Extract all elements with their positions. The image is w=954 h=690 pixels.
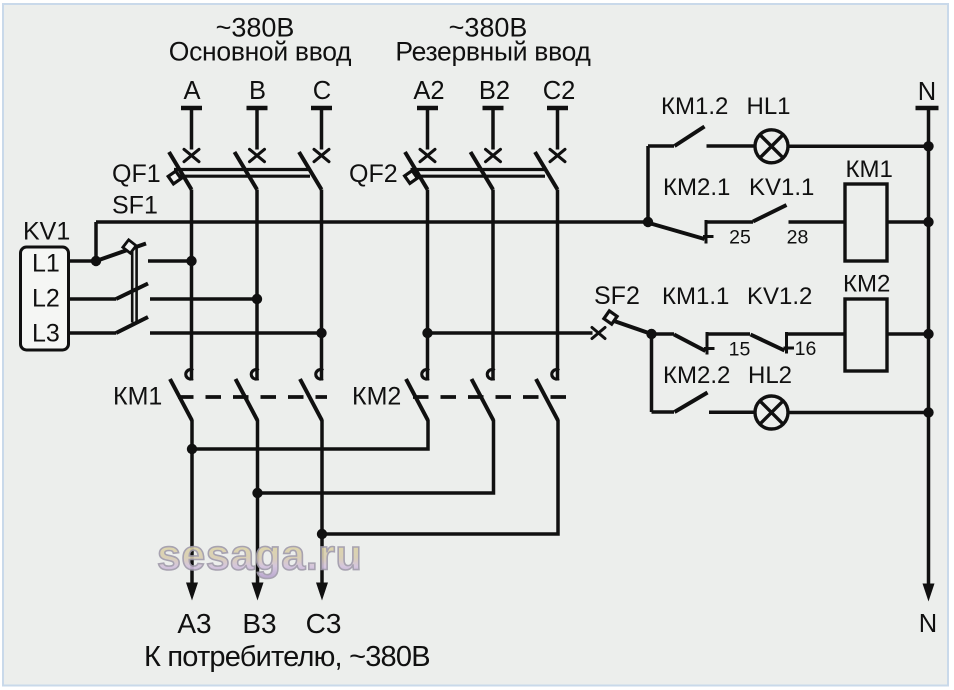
wire SF1 pole 3 to phase C bbox=[150, 331, 322, 335]
wire input A drop bbox=[190, 110, 194, 150]
wire SF1 pole 2 to phase B bbox=[150, 297, 257, 301]
svg-text:А2: А2 bbox=[413, 77, 444, 105]
wire KM1 coil to N bbox=[887, 220, 929, 224]
contact KM1.2 blade (NO) bbox=[675, 127, 705, 147]
svg-text:QF2: QF2 bbox=[349, 160, 398, 188]
wire output phase C down bbox=[320, 420, 324, 584]
switch SF2 blade bbox=[604, 318, 650, 334]
svg-text:Основной ввод: Основной ввод bbox=[169, 37, 352, 67]
wire KV1.2 to KM2 coil bbox=[787, 332, 846, 336]
node phase C tap bbox=[316, 328, 326, 338]
contactor KM1 mechanical link (dashed) bbox=[178, 395, 327, 399]
wire neutral N vertical bbox=[927, 110, 931, 584]
svg-text:КМ2.1: КМ2.1 bbox=[663, 174, 730, 201]
contactor KM1 pole A fixed hook bbox=[186, 370, 193, 379]
contactor KM1 pole B fixed hook bbox=[251, 370, 258, 379]
svg-text:КМ2: КМ2 bbox=[352, 383, 401, 411]
lamp HL1 bbox=[755, 130, 788, 163]
contactor KM2 pole C2 blade bbox=[536, 379, 558, 421]
node N/HL2 bbox=[923, 407, 933, 417]
svg-text:КМ1: КМ1 bbox=[113, 383, 162, 411]
svg-text:KV1.1: KV1.1 bbox=[749, 174, 814, 201]
svg-text:QF1: QF1 bbox=[112, 160, 161, 188]
breaker QF1 pole A blade bbox=[169, 152, 192, 190]
contact KM2.1 blade (NC) bbox=[649, 223, 705, 239]
contact KM2.2 blade (NO) bbox=[675, 393, 708, 413]
breaker QF2 pole B2 blade bbox=[471, 152, 494, 190]
breaker QF2 pole A2 fixed contact x bbox=[420, 149, 435, 161]
wire KV1 L1 to node bbox=[69, 259, 97, 263]
node phase A2 tap bbox=[422, 328, 432, 338]
wire KM2 coil to N bbox=[887, 332, 929, 336]
contactor KM2 pole B2 fixed hook bbox=[487, 370, 494, 379]
contact KV1.2 blade (NC) bbox=[751, 335, 785, 351]
svg-text:SF1: SF1 bbox=[112, 192, 158, 220]
svg-text:28: 28 bbox=[787, 227, 809, 249]
wire phase B2 (QF2 out) down to KM2 pole B2 bbox=[491, 190, 495, 381]
wire KM2.2 stub bbox=[652, 410, 675, 414]
breaker QF1 pole C blade bbox=[299, 152, 322, 190]
contactor KM2 mechanical link (dashed) bbox=[413, 395, 574, 399]
wire KM2 pole C2 out to phase C bbox=[325, 420, 559, 534]
breaker QF1 pole B fixed contact x bbox=[250, 149, 265, 161]
wire KM1.1 to KV1.2 bbox=[707, 332, 750, 336]
svg-text:L3: L3 bbox=[32, 320, 60, 348]
svg-text:КМ2: КМ2 bbox=[843, 271, 890, 298]
svg-text:Резервный ввод: Резервный ввод bbox=[395, 37, 591, 67]
contactor KM1 pole C fixed hook bbox=[316, 370, 323, 379]
svg-text:В3: В3 bbox=[242, 608, 276, 639]
wire KV1 L3 stub bbox=[69, 331, 117, 335]
contactor KM2 pole C2 fixed hook bbox=[552, 370, 559, 379]
switch SF1 flag bbox=[123, 240, 136, 253]
breaker QF2 pole C2 blade bbox=[535, 152, 558, 190]
arrow output A3 bbox=[186, 583, 198, 601]
switch SF2 fixed contact x bbox=[592, 328, 605, 339]
wire KM2 pole B2 out to phase B bbox=[260, 420, 494, 493]
node L1/SF1 junction bbox=[91, 256, 101, 266]
svg-text:L1: L1 bbox=[32, 250, 60, 278]
wire input A2 drop bbox=[426, 110, 430, 150]
svg-text:KV1: KV1 bbox=[23, 218, 70, 246]
breaker QF1 pole A fixed contact x bbox=[184, 149, 199, 161]
breaker QF2 pole C2 fixed contact x bbox=[550, 149, 565, 161]
lamp HL2 bbox=[755, 396, 788, 429]
switch SF1 pole 3 blade bbox=[116, 317, 148, 333]
breaker QF1 flag bbox=[168, 171, 181, 184]
wire KV1 L2 stub bbox=[69, 297, 117, 301]
svg-text:КМ1: КМ1 bbox=[846, 156, 893, 183]
svg-text:К потребителю, ~380В: К потребителю, ~380В bbox=[144, 641, 430, 673]
breaker QF2 pole A2 blade bbox=[405, 152, 428, 190]
contactor KM1 pole C blade bbox=[300, 379, 322, 421]
wire node K1 up to KM1.2 bbox=[646, 146, 650, 222]
breaker QF2 flag bbox=[405, 171, 418, 184]
node N/KM1 coil bbox=[923, 217, 933, 227]
svg-text:КМ1.2: КМ1.2 bbox=[661, 93, 728, 120]
breaker QF1 crossbar bbox=[174, 170, 310, 177]
arrow N output bbox=[923, 584, 935, 602]
wire KV1.1 to KM1 coil bbox=[789, 220, 846, 224]
wire SF1 pole 1 to phase A bbox=[148, 259, 192, 263]
wire phase A2 tap to SF2 bbox=[428, 331, 593, 335]
svg-text:С: С bbox=[313, 77, 331, 105]
wire KM1.2 to HL1 bbox=[707, 144, 755, 148]
node output B join bbox=[252, 488, 262, 498]
svg-text:SF2: SF2 bbox=[594, 282, 640, 310]
contact KV1.1 blade (NO) bbox=[753, 205, 787, 222]
arrow output C3 bbox=[316, 583, 328, 601]
switch SF1 pole 1 blade bbox=[96, 244, 146, 262]
node K2 junction (x=651.5 y=334) bbox=[646, 329, 656, 339]
node output C join bbox=[317, 529, 327, 539]
contact KM2.1 seat bbox=[703, 220, 714, 244]
svg-text:sesaga.ru: sesaga.ru bbox=[157, 532, 362, 580]
wire input C drop bbox=[320, 110, 324, 150]
wire output phase A down bbox=[190, 420, 194, 584]
contactor KM2 pole B2 blade bbox=[472, 379, 494, 421]
contactor coil KM1 bbox=[845, 184, 887, 261]
wire input B drop bbox=[255, 110, 259, 150]
contactor KM1 pole B blade bbox=[236, 379, 258, 421]
breaker QF2 crossbar bbox=[411, 170, 546, 177]
svg-text:N: N bbox=[919, 610, 937, 638]
wire control line from SF1/L1 node to node K1 (y=222) bbox=[96, 220, 648, 224]
node N/KM2 coil bbox=[923, 329, 933, 339]
contactor coil KM2 bbox=[845, 299, 887, 371]
svg-text:25: 25 bbox=[729, 227, 751, 249]
node phase B tap bbox=[252, 294, 262, 304]
terminal N (neutral, top right) bbox=[916, 78, 939, 108]
wire phase A (QF1 out) down to KM1 pole A bbox=[190, 190, 194, 381]
terminal В2 (reserve input phase) bbox=[479, 77, 510, 108]
svg-text:А3: А3 bbox=[177, 608, 211, 639]
svg-text:15: 15 bbox=[729, 339, 751, 361]
contact KM1.1 blade (NC) bbox=[674, 335, 706, 352]
svg-text:N: N bbox=[918, 78, 936, 106]
svg-text:HL2: HL2 bbox=[748, 362, 792, 389]
contactor KM1 pole A blade bbox=[170, 379, 192, 421]
svg-text:KV1.2: KV1.2 bbox=[747, 283, 812, 310]
wire K2 stub to KM1.1 bbox=[652, 332, 675, 336]
svg-text:В: В bbox=[249, 77, 266, 105]
wire KM1.2 stub bbox=[648, 144, 674, 148]
switch SF1 mechanical link bbox=[132, 245, 136, 323]
wire corner control line down to L1 node bbox=[94, 222, 98, 261]
wire output phase B down bbox=[256, 420, 260, 584]
wire phase B (QF1 out) down to KM1 pole B bbox=[255, 190, 259, 381]
svg-text:16: 16 bbox=[795, 338, 817, 360]
svg-text:А: А bbox=[183, 77, 200, 105]
arrow output B3 bbox=[252, 583, 264, 601]
wire phase A2 (QF2 out) down to KM2 pole A2 bbox=[426, 190, 430, 381]
wire KM2 pole A2 out to phase A bbox=[195, 420, 429, 449]
node output A join bbox=[187, 444, 197, 454]
wire node K2 down to KM2.2 bbox=[650, 334, 654, 412]
terminal А2 (reserve input phase) bbox=[413, 77, 444, 108]
wire phase C2 (QF2 out) down to KM2 pole C2 bbox=[556, 190, 560, 381]
node N/HL1 bbox=[923, 141, 933, 151]
svg-text:HL1: HL1 bbox=[747, 93, 791, 120]
breaker QF2 pole B2 fixed contact x bbox=[486, 149, 501, 161]
svg-text:В2: В2 bbox=[479, 77, 510, 105]
wire KM2.1 to KV1.1 bbox=[706, 220, 753, 224]
terminal С (main input phase) bbox=[311, 77, 332, 108]
terminal А (main input phase) bbox=[181, 77, 202, 108]
svg-text:L2: L2 bbox=[32, 285, 60, 313]
breaker QF1 pole B blade bbox=[235, 152, 258, 190]
svg-text:С2: С2 bbox=[543, 77, 576, 105]
switch SF2 flag bbox=[604, 311, 617, 324]
svg-text:С3: С3 bbox=[306, 608, 342, 639]
wire input C2 drop bbox=[556, 110, 560, 150]
contact KM1.1 seat bbox=[704, 332, 715, 355]
contactor KM2 pole A2 blade bbox=[406, 379, 428, 421]
contact KV1.2 seat bbox=[784, 332, 795, 354]
switch SF1 pole 2 blade bbox=[116, 284, 148, 300]
terminal В (main input phase) bbox=[247, 77, 268, 108]
svg-text:КМ2.2: КМ2.2 bbox=[663, 362, 730, 389]
breaker QF1 pole C fixed contact x bbox=[314, 149, 329, 161]
wire input B2 drop bbox=[491, 110, 495, 150]
terminal С2 (reserve input phase) bbox=[543, 77, 576, 108]
wire KM2.2 to HL2 bbox=[709, 411, 755, 415]
node K1 junction (x=648 y=222) bbox=[643, 217, 653, 227]
wire HL2 to N bbox=[788, 411, 929, 415]
node phase A tap bbox=[186, 256, 196, 266]
wire HL1 to N bbox=[788, 145, 929, 149]
svg-text:КМ1.1: КМ1.1 bbox=[662, 283, 729, 310]
wire phase C (QF1 out) down to KM1 pole C bbox=[320, 190, 324, 381]
voltage relay KV1 box bbox=[21, 247, 69, 350]
contactor KM2 pole A2 fixed hook bbox=[422, 370, 429, 379]
